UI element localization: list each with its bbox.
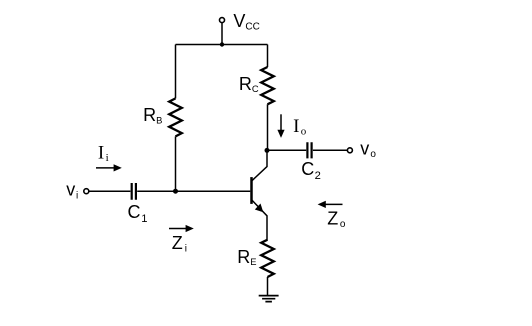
current Io arrowhead [277, 130, 284, 138]
current Ii arrowhead [114, 164, 122, 171]
resistor RB [169, 98, 182, 136]
wire C2 to output [313, 149, 347, 151]
wire RC upper [267, 45, 269, 68]
wire RB upper [175, 45, 177, 99]
capacitor C1 [132, 183, 136, 200]
impedance Zi arrowhead [186, 225, 194, 232]
terminal vi [84, 189, 89, 194]
transistor Q1 emitter lead [252, 200, 267, 240]
wire RC lower [267, 104, 269, 151]
resistor RE [261, 240, 274, 277]
node base junction [173, 189, 178, 194]
impedance Zi arrow shaft [169, 228, 186, 230]
current Io arrow shaft [280, 114, 282, 130]
wire C1 to base [137, 190, 250, 192]
wire RB lower [175, 136, 177, 191]
terminal vo [347, 148, 352, 153]
transistor Q1 collector lead [252, 151, 267, 181]
wire input to C1 [89, 190, 130, 192]
transistor Q1 base bar [250, 177, 253, 204]
wire collector to C2 [269, 149, 306, 151]
wire top rail [176, 44, 268, 46]
capacitor C2 [307, 142, 311, 158]
ground [259, 296, 279, 302]
wire vcc stub [221, 23, 223, 45]
terminal VCC [220, 18, 225, 23]
current Ii arrow shaft [96, 167, 114, 169]
node collector junction [265, 148, 270, 153]
node vcc junction [220, 42, 224, 46]
wire RE lower [267, 277, 269, 295]
transistor Q1 emitter arrowhead [255, 204, 263, 213]
impedance Zo arrow shaft [325, 203, 343, 205]
impedance Zo arrowhead [318, 201, 326, 208]
resistor RC [261, 67, 274, 104]
